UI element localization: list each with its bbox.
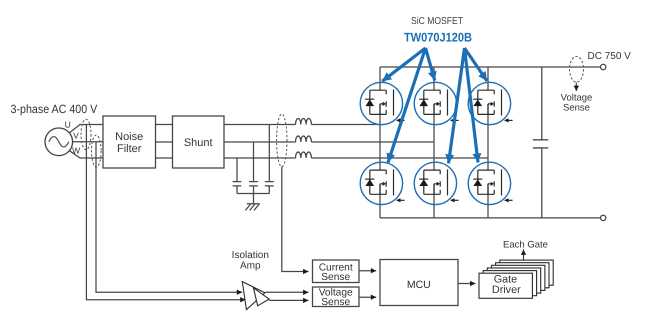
bridge leg 3 wire segments: [487, 67, 489, 218]
inductor L2 (middle phase): [296, 136, 312, 142]
DC+ output terminal: [601, 64, 606, 69]
bridge leg 2 wire segments: [433, 67, 435, 218]
MCU block: [380, 260, 458, 306]
svg-text:Noise: Noise: [115, 131, 143, 143]
filter capacitor C1 stem (top phase): [268, 125, 270, 182]
DC- output terminal: [601, 215, 606, 220]
blue callout arrow to Q5 (bottom-middle MOSFET): [449, 48, 465, 163]
voltage sense dashed ellipse on DC+ rail: [570, 57, 584, 83]
chassis ground: [245, 204, 259, 211]
sense wire from U tap down to isolation amp lower input: [86, 125, 245, 300]
wire isolation amp lower output to Voltage Sense block: [269, 299, 308, 301]
capacitor C1 plates: [265, 182, 274, 194]
Noise Filter block: [103, 116, 156, 168]
filter capacitor C3 stem (bottom phase): [236, 158, 238, 182]
inductor L3 (bottom phase): [296, 152, 312, 158]
AC source V1: [45, 128, 73, 156]
wire Voltage Sense to MCU: [359, 296, 376, 298]
svg-text:Sense: Sense: [321, 272, 350, 283]
Shunt block: [173, 116, 225, 168]
wire W phase: AC source to Noise Filter: [69, 151, 103, 158]
MOSFET Q2 (top-middle): [414, 82, 458, 124]
isolation amp U2 (front triangle): [253, 288, 269, 306]
voltage tap dashed ellipse on U line: [81, 119, 91, 150]
MOSFET Q1 (top-left): [360, 82, 404, 124]
inductor L1 (top phase): [296, 119, 312, 125]
wire L1 to leg 1 midpoint: [311, 124, 380, 126]
svg-text:3-phase AC 400 V: 3-phase AC 400 V: [11, 102, 98, 116]
isolation amp U1 (back triangle): [242, 282, 265, 310]
svg-text:DC 750 V: DC 750 V: [588, 51, 632, 62]
current sense wire down to Current Sense block: [282, 167, 309, 272]
DC- bottom rail: [380, 217, 601, 219]
svg-text:Amp: Amp: [240, 260, 261, 271]
svg-text:U: U: [65, 120, 71, 130]
voltage tap dashed ellipse on V line: [92, 135, 102, 167]
svg-text:Sense: Sense: [563, 102, 590, 113]
DC link rail right side: [541, 67, 543, 218]
Voltage Sense block: [313, 287, 360, 307]
svg-text:Driver: Driver: [492, 284, 521, 296]
svg-text:Filter: Filter: [117, 143, 142, 155]
DC+ top rail: [380, 66, 601, 68]
blue callout arrow to Q3 (top-right MOSFET): [465, 48, 488, 81]
MOSFET Q3 (top-right): [468, 82, 512, 124]
voltage sense pointer arrow: [575, 83, 577, 92]
wire V phase: AC source to Noise Filter: [73, 141, 103, 143]
svg-text:V: V: [73, 131, 79, 141]
arrow Gate Driver to Each Gate: [523, 250, 525, 261]
blue callout arrow to Q4 (bottom-left MOSFET): [388, 48, 426, 163]
svg-text:SiC MOSFET: SiC MOSFET: [411, 16, 463, 27]
blue callout arrow to Q2 (top-middle MOSFET): [426, 48, 435, 81]
capacitor C3 plates: [233, 182, 242, 194]
current sense dashed ellipse around phase wires: [277, 114, 287, 167]
DC link capacitor C4: [533, 140, 548, 148]
wires Noise Filter to Shunt (3 phases): [156, 125, 173, 159]
bridge leg 1 wire segments: [379, 67, 381, 218]
wires Shunt to inductors (3 phases): [224, 125, 296, 159]
wire L3 to leg 3 midpoint: [311, 157, 488, 159]
MOSFET Q4 (bottom-left): [360, 162, 404, 204]
blue callout arrow to Q6 (bottom-right MOSFET): [465, 48, 479, 163]
svg-text:TW070J120B: TW070J120B: [404, 30, 472, 44]
Gate Driver stacked pages: [479, 260, 553, 298]
svg-text:Shunt: Shunt: [184, 137, 213, 149]
blue callout arrow to Q1 (top-left MOSFET): [382, 48, 425, 81]
wire MCU to Gate Driver: [458, 283, 476, 285]
MOSFET Q5 (bottom-middle): [414, 162, 458, 204]
wire L2 to leg 2 midpoint: [311, 141, 434, 143]
svg-text:Sense: Sense: [321, 297, 350, 308]
svg-text:Each Gate: Each Gate: [503, 240, 548, 251]
filter capacitor C2 stem (middle phase): [253, 142, 255, 182]
capacitor C2 plates: [249, 182, 258, 194]
capacitor common bus wire: [237, 194, 269, 204]
sense wire from V tap down to isolation amp upper input: [96, 142, 242, 292]
Current Sense block: [313, 260, 360, 283]
wire U phase: AC source to Noise Filter: [69, 125, 103, 133]
wire isolation amp upper output to Voltage Sense block: [265, 291, 309, 293]
wire Current Sense to MCU: [359, 270, 376, 272]
MOSFET Q6 (bottom-right): [468, 162, 512, 204]
svg-text:MCU: MCU: [407, 279, 431, 291]
